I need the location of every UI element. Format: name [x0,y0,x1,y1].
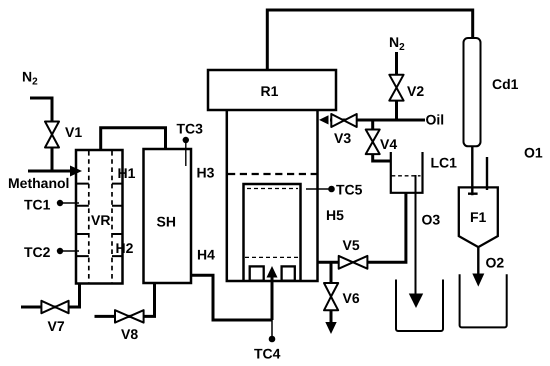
svg-text:TC1: TC1 [24,197,51,213]
vessel VR vaporizer [76,150,123,284]
svg-text:F1: F1 [470,209,487,225]
svg-text:Cd1: Cd1 [492,76,519,92]
VR heater rungs left [76,184,89,257]
condenser Cd1 [464,38,481,146]
svg-text:TC4: TC4 [254,346,281,362]
vessel LC1 level pot [391,152,423,193]
arrowhead V6 vent down [325,322,336,334]
valve V2 [389,75,403,101]
valve V6 [324,283,338,310]
valve V1 [45,122,59,148]
svg-text:H5: H5 [326,207,344,223]
wire V6 branch down [330,262,333,324]
svg-text:TC2: TC2 [24,244,51,260]
svg-text:V1: V1 [65,124,82,140]
thermocouple TC2 [57,248,63,254]
wire LC1 drain to V5 [368,193,406,262]
VR inner dashed wall right [111,151,113,283]
arrowhead methanol into VR [70,166,82,177]
svg-text:O2: O2 [486,255,505,271]
valve V4 [366,130,380,155]
svg-text:V7: V7 [48,318,65,334]
catalyst block right [282,266,295,280]
VR inner dashed wall left [88,151,90,283]
svg-text:Methanol: Methanol [8,175,69,191]
wire feed riser into reactor [271,276,274,320]
wire N2 to V2 [395,52,398,120]
svg-text:H1: H1 [118,165,136,181]
svg-text:O3: O3 [422,212,441,228]
thermocouple TC4 [271,320,273,339]
svg-text:V8: V8 [121,326,138,342]
thermocouple TC1 [57,200,63,206]
wire VR drain to V7 [21,284,80,308]
vent tube on F1 [486,157,488,190]
catalyst block left [250,266,264,280]
beaker under O3 [396,280,443,332]
wire reactor outlet to V5 [318,261,340,264]
reactor inner basket [244,184,301,281]
valve V5 [339,256,368,269]
svg-text:V5: V5 [343,237,360,253]
reactor level dashed line [228,173,317,175]
svg-text:LC1: LC1 [431,155,458,171]
svg-text:SH: SH [157,214,176,230]
svg-text:V3: V3 [334,130,351,146]
wire SH outlet to reactor bottom [191,275,272,320]
vessel SH superheater [144,149,192,283]
thermocouple TC3 [183,137,189,143]
svg-text:V6: V6 [343,290,360,306]
arrowhead into reactor at V3 [319,115,329,124]
vessel R1 head box [208,70,336,110]
svg-text:V2: V2 [407,83,424,99]
valve V7 [41,301,68,313]
svg-text:H3: H3 [197,165,215,181]
wire overhead R1 to Cd1 [267,10,472,70]
vessel F1 separator [459,187,498,247]
wire Methanol inlet [28,170,72,173]
svg-text:VR: VR [91,212,110,228]
arrowhead O2 down [472,274,484,287]
wire VR top to SH top [101,128,166,150]
wire SH drain to V8 [95,284,155,317]
thermocouple TC5 [306,188,332,190]
svg-text:TC3: TC3 [177,121,204,137]
valve V3 [331,114,356,127]
svg-text:O1: O1 [524,145,543,161]
wire oil line V3 to Oil [330,119,425,122]
stream O3 line [415,175,417,296]
beaker under O2 [460,274,507,327]
arrowhead O3 down [409,294,423,309]
basket top dashed line [247,188,298,190]
wire Cd1 outlet dip tube into F1 [468,146,478,195]
svg-text:Oil: Oil [426,112,445,128]
svg-text:H4: H4 [197,247,215,263]
svg-text:R1: R1 [261,83,279,99]
valve V8 [115,310,144,322]
svg-text:TC5: TC5 [336,182,363,198]
stream O2 line [477,247,479,274]
wire N2 inlet to V1 [30,98,52,171]
VR heater rungs right [112,184,123,257]
reactor outer shell [227,110,318,281]
basket bottom dashed line [245,256,300,258]
svg-text:V4: V4 [380,136,397,152]
svg-text:H2: H2 [116,240,134,256]
wire V4 branch to LC1 [373,120,391,161]
arrowhead feed up [267,266,278,278]
LC1 level dashed line [392,175,421,177]
